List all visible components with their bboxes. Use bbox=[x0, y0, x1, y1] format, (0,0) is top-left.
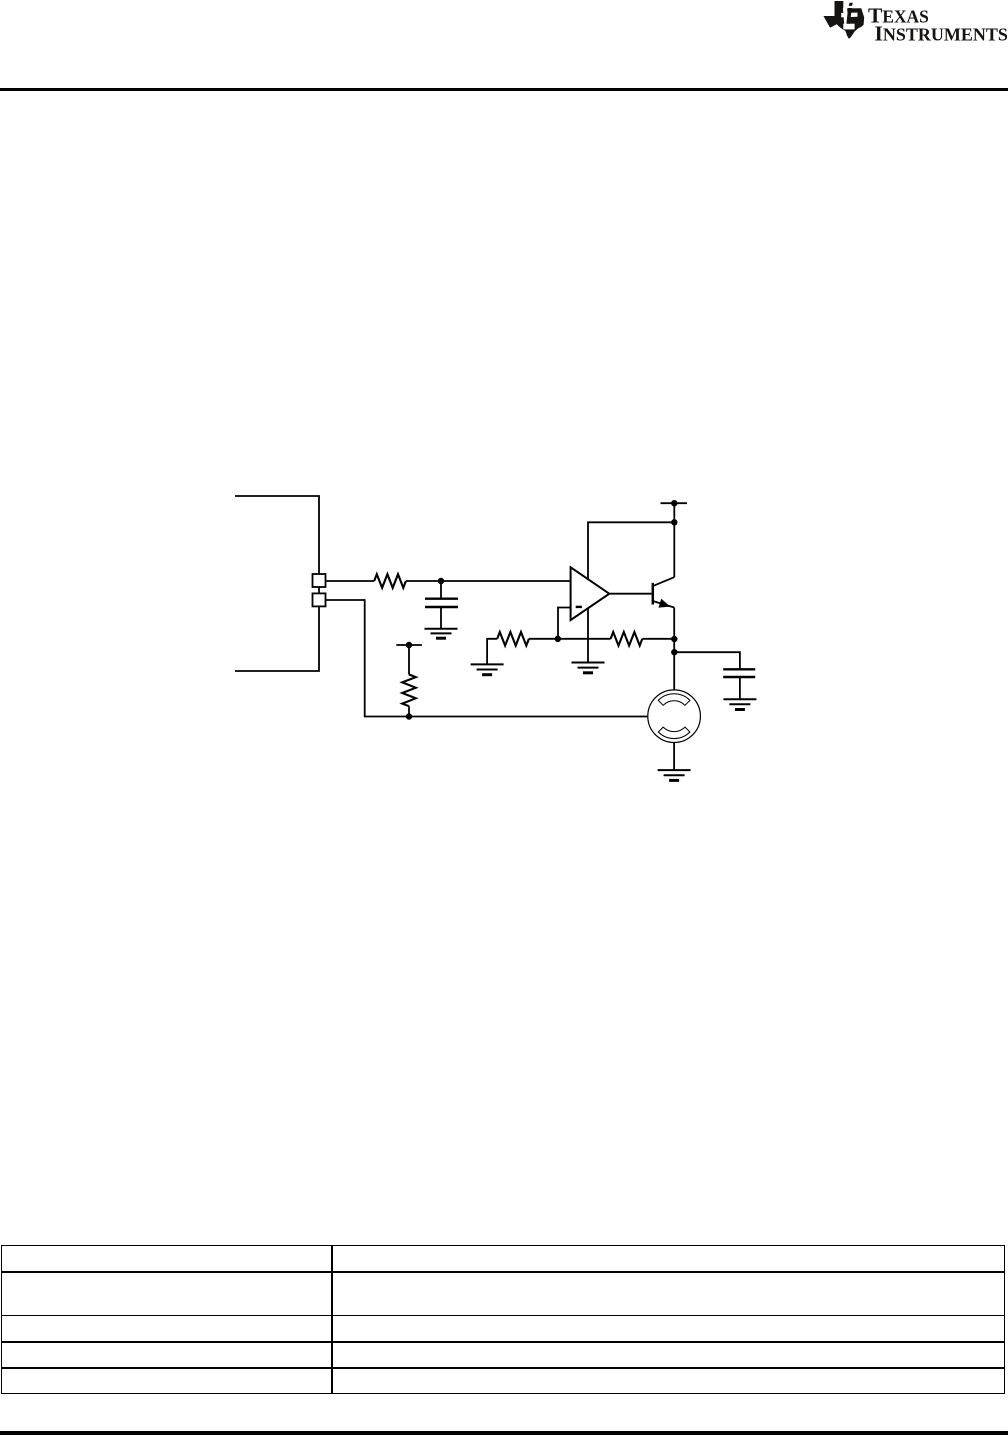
ground under C1 bbox=[425, 629, 458, 639]
black i dot bbox=[848, 2, 852, 5]
capacitor C1 lead bbox=[440, 581, 442, 598]
op-amp U2 minus sign bbox=[576, 606, 582, 608]
wire R3 to node B bbox=[529, 638, 558, 640]
node E junction dot bbox=[671, 649, 677, 655]
white t crossbar bbox=[841, 12, 857, 17]
white foot patch bbox=[843, 23, 854, 29]
capacitor C2 bbox=[723, 669, 755, 677]
op-amp V- pin wire bbox=[587, 608, 589, 662]
circuit schematic bbox=[225, 490, 775, 795]
wire C1 to ground bbox=[440, 607, 442, 629]
IC U1 partial outline (open left) bbox=[235, 496, 319, 671]
transistor Q1 base bar bbox=[652, 583, 655, 605]
supply stub dot bbox=[671, 500, 677, 506]
wire node E to C2 bbox=[674, 652, 740, 669]
motor M1 circle bbox=[648, 690, 701, 743]
capacitor C1 bbox=[425, 599, 458, 607]
op-amp U2 bbox=[571, 567, 610, 620]
TEXAS INSTRUMENTS wordmark bbox=[0, 0, 1008, 60]
node D junction dot bbox=[671, 636, 677, 642]
resistor R3 left lead to ground bbox=[487, 639, 497, 665]
node C junction dot bbox=[671, 519, 677, 525]
resistor R4 top lead bbox=[408, 645, 410, 675]
resistor R2 bbox=[611, 632, 643, 646]
node A junction dot bbox=[438, 578, 444, 584]
texas state silhouette bbox=[823, 1, 864, 39]
header rule bbox=[0, 88, 1008, 91]
motor M1 bottom brush band bbox=[658, 727, 690, 739]
wire P2 down and to motor bbox=[326, 600, 648, 717]
motor M1 top brush band bbox=[658, 694, 690, 706]
ground under op-amp bbox=[572, 663, 605, 673]
wire supply to collector bbox=[673, 503, 675, 577]
wire P1 to R1 bbox=[326, 580, 375, 582]
ground under C2 bbox=[723, 699, 756, 709]
resistor R3 bbox=[497, 632, 529, 646]
wire R2 to emitter node bbox=[642, 638, 674, 640]
resistor R4 bbox=[402, 675, 416, 707]
transistor Q1 emitter arrow bbox=[659, 599, 671, 608]
white t stem bbox=[842, 7, 848, 23]
node F junction dot bbox=[406, 713, 412, 719]
black i stem bbox=[846, 8, 852, 24]
footer rule bbox=[0, 1431, 1008, 1435]
transistor Q1 emitter bbox=[653, 601, 674, 608]
resistor R4 top dot bbox=[406, 642, 412, 648]
wire C2 to ground bbox=[739, 677, 741, 699]
pin square P1 bbox=[313, 574, 326, 587]
transistor Q1 collector bbox=[653, 577, 674, 586]
pin square P2 bbox=[313, 593, 326, 606]
wire node B to R2 bbox=[558, 638, 611, 640]
svg-text:TEXAS INSTRUMENTS: TEXAS INSTRUMENTS bbox=[868, 3, 1008, 45]
wire inverting input bbox=[558, 608, 571, 639]
supply stub bar bbox=[661, 502, 688, 504]
ground under R3 bbox=[471, 664, 504, 674]
resistor R4 bottom lead bbox=[408, 706, 410, 716]
wire emitter down bbox=[673, 608, 675, 691]
wire op-amp output to base bbox=[609, 593, 651, 595]
wire R1 to op-amp + input bbox=[406, 580, 571, 582]
node B junction dot bbox=[555, 636, 561, 642]
table bbox=[1, 1245, 1005, 1394]
TI logo (Texas state with ti) bbox=[823, 1, 865, 40]
ground under motor bbox=[658, 770, 691, 780]
wire motor to ground bbox=[673, 743, 675, 771]
resistor R1 bbox=[374, 574, 406, 588]
resistor R4 top stub bar bbox=[396, 644, 422, 646]
op-amp V+ pin wire bbox=[588, 522, 674, 579]
